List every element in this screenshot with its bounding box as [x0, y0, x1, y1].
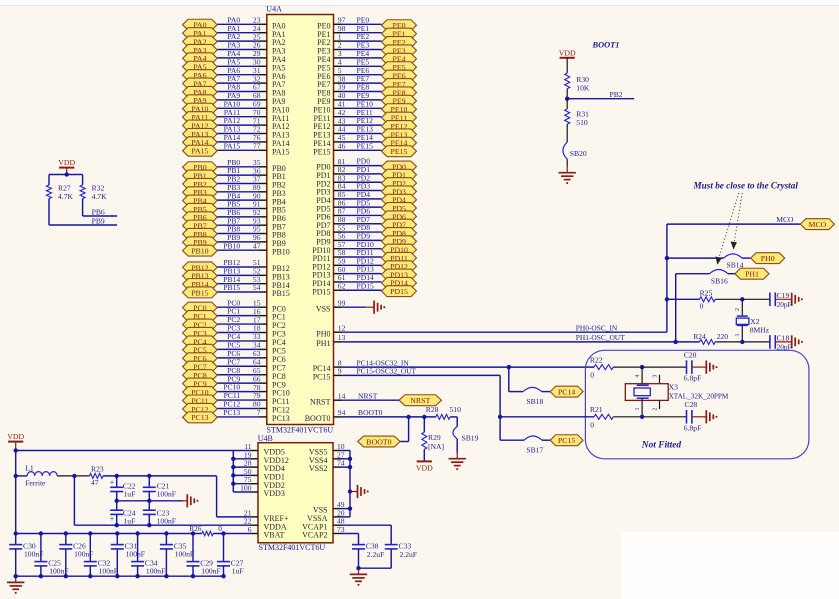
- svg-text:SB18: SB18: [526, 397, 543, 406]
- pin PB9 (96) of U4A with wire and port: [183, 233, 286, 248]
- pin VDDA (22) of U4B: [244, 517, 287, 532]
- capacitor C19 20pF: [770, 291, 792, 309]
- pin PD10 (57) of U4A with wire and port: [312, 240, 416, 255]
- pin PB1 (36) of U4A with wire and port: [183, 166, 286, 181]
- wire VCAP1 to C33: [342, 525, 392, 544]
- junction C27 top: [221, 531, 225, 535]
- pin PE9 (40) of U4A with wire and port: [317, 91, 416, 106]
- pin PB6 (92) of U4A with wire and port: [183, 208, 286, 223]
- svg-text:13: 13: [338, 333, 346, 342]
- svg-text:220: 220: [717, 332, 729, 341]
- svg-text:R22: R22: [590, 355, 603, 364]
- pin PE13 (44) of U4A with wire and port: [313, 125, 416, 140]
- pin NRST (14) of U4A: [310, 391, 399, 406]
- pin PC10 (78) of U4A with wire and port: [183, 383, 290, 398]
- svg-text:PC15: PC15: [313, 373, 331, 382]
- junction C31 bottom: [115, 574, 119, 578]
- pin PB5 (91) of U4A with wire and port: [183, 200, 286, 215]
- svg-text:Ferrite: Ferrite: [25, 478, 46, 487]
- pin PB15 (54) of U4A with wire and port: [183, 283, 290, 298]
- pin PC3 (18) of U4A with wire and port: [183, 324, 286, 339]
- resistor R27 4.7K: [47, 175, 74, 202]
- svg-text:1: 1: [635, 408, 641, 411]
- pin PD2 (83) of U4A with wire and port: [316, 173, 416, 188]
- svg-text:PA15: PA15: [191, 147, 208, 156]
- resistor R31 510: [565, 99, 589, 128]
- svg-text:99: 99: [338, 298, 346, 307]
- junction at X3 pin1: [640, 415, 644, 419]
- wire down to SB17: [500, 417, 524, 440]
- svg-text:VSS: VSS: [316, 304, 331, 313]
- IC U4A STM32F401VCT6U (ports A-E pins): [267, 15, 334, 425]
- wire SB19 to ground: [456, 439, 458, 453]
- pin PC7 (64) of U4A with wire and port: [183, 357, 286, 372]
- pin PB0 (35) of U4A with wire and port: [183, 158, 286, 173]
- svg-text:PB10: PB10: [272, 247, 290, 256]
- svg-text:PE15: PE15: [313, 147, 330, 156]
- svg-text:PB15: PB15: [223, 283, 240, 292]
- svg-text:PC13: PC13: [272, 414, 290, 423]
- svg-text:SB19: SB19: [462, 434, 479, 443]
- pin PB12 (51) of U4A with wire and port: [183, 258, 290, 273]
- junction at X3 pin4: [640, 365, 644, 369]
- svg-text:PH0-OSC_IN: PH0-OSC_IN: [576, 324, 618, 333]
- svg-text:NRST: NRST: [310, 397, 331, 406]
- resistor R21 0: [500, 405, 613, 429]
- junction on BOOT0 net at port branch: [406, 415, 410, 419]
- pin VDD5 (11) of U4B: [233, 442, 285, 457]
- pin PD0 (81) of U4A with wire and port: [316, 157, 416, 172]
- capacitor C25 100nF: [34, 534, 68, 577]
- wire SB14 to PH0 port: [742, 257, 751, 259]
- junction C34 top: [135, 531, 139, 535]
- pin PC5 (34) of U4A with wire and port: [183, 341, 286, 356]
- svg-text:62: 62: [338, 281, 346, 290]
- pin PB13 (52) of U4A with wire and port: [183, 266, 290, 281]
- wire VSSA row: [342, 516, 351, 518]
- junction VDD rail: [231, 457, 235, 461]
- solder bridge SB17: [524, 436, 543, 454]
- junction C26 top: [64, 531, 68, 535]
- svg-text:6: 6: [248, 525, 252, 534]
- junction at SB14 branch: [665, 256, 669, 260]
- wire R28 to SB19: [450, 417, 457, 427]
- svg-text:100nF: 100nF: [146, 566, 165, 575]
- wire to SB14: [667, 257, 724, 259]
- svg-text:2: 2: [735, 308, 741, 311]
- pin PD5 (86) of U4A with wire and port: [316, 198, 416, 213]
- svg-text:Must be close to the Crystal: Must be close to the Crystal: [693, 181, 799, 191]
- junction VDD rail: [231, 473, 235, 477]
- wire down to SB18: [509, 367, 523, 392]
- junction C32 top: [88, 531, 92, 535]
- pin PA8 (67) of U4A with wire and port: [183, 83, 286, 98]
- pin PA10 (69) of U4A with wire and port: [183, 99, 290, 114]
- svg-text:0: 0: [700, 302, 704, 311]
- svg-text:MCO: MCO: [809, 220, 827, 229]
- junction VSS ground tap: [348, 489, 352, 493]
- wire net PC14-OSC32_IN: [342, 366, 594, 368]
- svg-text:2: 2: [652, 408, 658, 411]
- pin PA2 (25) of U4A with wire and port: [183, 32, 286, 47]
- pin PE2 (1) of U4A with wire and port: [317, 32, 416, 47]
- svg-text:PB15: PB15: [191, 288, 208, 297]
- svg-text:10K: 10K: [576, 84, 590, 93]
- junction VDD rail: [231, 482, 235, 486]
- svg-text:C28: C28: [685, 400, 698, 409]
- junction at X2 top: [740, 297, 744, 301]
- svg-text:C20: C20: [684, 350, 697, 359]
- svg-text:PB10: PB10: [191, 247, 208, 256]
- wire net PB9: [49, 199, 117, 225]
- capacitor C24 1uF polarized: [110, 501, 136, 526]
- pin PE12 (43) of U4A with wire and port: [313, 116, 416, 131]
- svg-text:PH0: PH0: [761, 254, 775, 263]
- svg-text:0: 0: [218, 524, 222, 533]
- pin VSS (99) of U4A: [316, 298, 366, 313]
- wire R30 to junction: [566, 89, 568, 99]
- pin PB7 (93) of U4A with wire and port: [183, 216, 286, 231]
- wire PH1 vertical riser to SB16: [675, 274, 677, 342]
- junction C32 bottom: [88, 574, 92, 578]
- svg-text:1uF: 1uF: [232, 566, 244, 575]
- wire SB20 to ground: [566, 159, 568, 166]
- junction PH1 riser: [674, 340, 678, 344]
- pin PC2 (17) of U4A with wire and port: [183, 315, 286, 330]
- pin VSS2 (74) of U4B: [309, 459, 350, 474]
- junction C24 bottom: [115, 523, 119, 527]
- svg-text:100nF: 100nF: [157, 489, 176, 498]
- svg-text:PH1: PH1: [316, 339, 330, 348]
- wire VBAT rail: [16, 533, 250, 535]
- ground at U4B VSS rail: [350, 485, 369, 498]
- svg-text:4.7K: 4.7K: [92, 192, 107, 201]
- pin PH0 (12) of U4A: [316, 323, 345, 338]
- pin PC6 (63) of U4A with wire and port: [183, 349, 286, 364]
- wire analog ground rail: [117, 492, 183, 501]
- svg-text:12: 12: [338, 323, 346, 332]
- pin PC9 (66) of U4A with wire and port: [183, 374, 286, 389]
- svg-text:X3: X3: [669, 382, 678, 391]
- svg-text:4.7K: 4.7K: [58, 192, 73, 201]
- svg-text:PC13: PC13: [223, 408, 240, 417]
- solder bridge SB18: [523, 387, 543, 406]
- svg-text:100nF: 100nF: [99, 566, 118, 575]
- svg-text:+: +: [110, 515, 115, 524]
- crystal X3 XTAL_32K_20PPM: [625, 367, 729, 417]
- junction C21 top: [147, 474, 151, 478]
- svg-text:510: 510: [576, 118, 588, 127]
- resistor R28 510: [426, 405, 461, 419]
- junction C31 top: [115, 531, 119, 535]
- pin PA5 (30) of U4A with wire and port: [183, 57, 286, 72]
- svg-text:PE15: PE15: [357, 141, 374, 150]
- pin PA15 (77) of U4A with wire and port: [183, 141, 290, 156]
- ground at C20: [692, 361, 717, 374]
- wire R22 to C20: [613, 366, 686, 368]
- wire VSS row: [342, 508, 351, 510]
- pin PE15 (46) of U4A with wire and port: [313, 141, 416, 156]
- svg-text:PC15-OSC32_OUT: PC15-OSC32_OUT: [357, 367, 417, 376]
- pin PA4 (29) of U4A with wire and port: [183, 49, 286, 64]
- annotation arrow to SB16: [716, 193, 739, 265]
- pin PA12 (71) of U4A with wire and port: [183, 116, 290, 131]
- pin PC12 (80) of U4A with wire and port: [183, 400, 290, 415]
- junction C25 top: [39, 531, 43, 535]
- resistor R29 [NA]: [422, 417, 444, 451]
- pin VREF+ (21) of U4B: [244, 508, 289, 523]
- ground at VSS pin 99: [366, 301, 385, 314]
- junction C27 bottom: [221, 574, 225, 578]
- svg-text:BOOT1: BOOT1: [592, 40, 620, 49]
- wire net PH1-OSC_OUT: [342, 341, 676, 343]
- junction on PC15 net at R21 row: [498, 415, 502, 419]
- wire SB18 to PC14 port: [542, 391, 551, 393]
- port PH0: [751, 253, 785, 264]
- svg-text:SB16: SB16: [711, 276, 728, 285]
- ground at C19: [775, 293, 803, 306]
- junction VSS row: [348, 506, 352, 510]
- pin PE8 (39) of U4A with wire and port: [317, 83, 416, 98]
- junction VCAP ground: [356, 566, 360, 570]
- pin VDD3 (100) of U4B: [233, 484, 285, 499]
- pin PE7 (38) of U4A with wire and port: [317, 74, 416, 89]
- wire VCAP2 to C38: [342, 534, 359, 545]
- resistor R26 0: [189, 524, 222, 536]
- pin PE10 (41) of U4A with wire and port: [313, 99, 416, 114]
- pin PD6 (87) of U4A with wire and port: [316, 207, 416, 222]
- svg-text:74: 74: [337, 459, 345, 468]
- junction at R29 top: [422, 415, 426, 419]
- wire VREF+ net: [103, 476, 250, 517]
- svg-text:R28: R28: [426, 405, 439, 414]
- wire BOOT0 port link: [400, 441, 408, 443]
- pin PE5 (4) of U4A with wire and port: [317, 57, 416, 72]
- pin PA1 (24) of U4A with wire and port: [183, 24, 286, 39]
- ground at C28: [692, 410, 717, 423]
- wire VDDA net: [74, 476, 250, 525]
- capacitor C20 6.8pF: [684, 350, 702, 382]
- svg-text:R24: R24: [693, 332, 706, 341]
- svg-text:NRST: NRST: [410, 396, 430, 405]
- svg-text:4: 4: [635, 375, 641, 378]
- svg-text:BOOT0: BOOT0: [358, 408, 383, 417]
- pin PA13 (72) of U4A with wire and port: [183, 125, 290, 140]
- svg-text:2.2uF: 2.2uF: [367, 550, 385, 559]
- svg-text:0: 0: [590, 371, 594, 380]
- svg-text:100nF: 100nF: [126, 549, 145, 558]
- svg-text:L1: L1: [25, 464, 34, 473]
- pin VSSA (20) of U4B: [307, 508, 345, 523]
- pin PB3 (89) of U4A with wire and port: [183, 183, 286, 198]
- svg-text:+: +: [110, 478, 115, 487]
- wire SB16 to PH1 port: [728, 273, 735, 275]
- port MCO: [800, 219, 834, 230]
- wire VSS vertical rail: [349, 451, 351, 517]
- capacitor C26 100nF: [59, 534, 93, 577]
- wire R29 to VDD: [423, 449, 425, 461]
- wire to BOOT0 port: [408, 417, 410, 442]
- ground under SB19: [456, 453, 458, 459]
- svg-text:SB20: SB20: [570, 149, 587, 158]
- capacitor C29 100nF: [187, 534, 221, 577]
- capacitor C27 1uF: [217, 534, 244, 577]
- pin PC4 (33) of U4A with wire and port: [183, 332, 286, 347]
- svg-text:Not Fitted: Not Fitted: [641, 441, 682, 451]
- pin PB8 (95) of U4A with wire and port: [183, 225, 286, 240]
- pin PD9 (56) of U4A with wire and port: [316, 231, 416, 246]
- svg-text:VDD: VDD: [7, 432, 24, 441]
- junction C30 top: [14, 531, 18, 535]
- pin VSS5 (10) of U4B: [309, 442, 350, 457]
- svg-text:100nF: 100nF: [49, 566, 68, 575]
- pin VSS4 (27) of U4B: [309, 450, 350, 465]
- wire SB17 to PC15 port: [542, 439, 550, 441]
- port BOOT0: [358, 436, 401, 447]
- svg-text:PH1-OSC_OUT: PH1-OSC_OUT: [576, 333, 625, 342]
- pin PD12 (59) of U4A with wire and port: [312, 256, 416, 271]
- pin PH1 (13) of U4A: [316, 333, 345, 348]
- svg-text:R31: R31: [576, 110, 589, 119]
- pin PE0 (97) of U4A with wire and port: [317, 15, 416, 30]
- svg-text:PB10: PB10: [223, 241, 240, 250]
- svg-text:100nF: 100nF: [201, 566, 220, 575]
- crystal X2 8MHz: [736, 299, 769, 342]
- pin PB2 (37) of U4A with wire and port: [183, 175, 286, 190]
- svg-text:NRST: NRST: [358, 391, 378, 400]
- junction VSS4: [348, 457, 352, 461]
- svg-text:VBAT: VBAT: [264, 531, 285, 540]
- svg-text:R25: R25: [700, 289, 713, 298]
- svg-text:PB6: PB6: [92, 207, 105, 216]
- junction VDD entry: [14, 448, 18, 452]
- svg-text:[NA]: [NA]: [428, 442, 444, 451]
- wire R31 to SB20: [566, 124, 568, 142]
- pin PC8 (65) of U4A with wire and port: [183, 366, 286, 381]
- svg-text:BOOT0: BOOT0: [366, 437, 391, 446]
- svg-text:PD15: PD15: [312, 287, 330, 296]
- junction node PB2: [565, 97, 569, 101]
- port NRST: [399, 395, 442, 406]
- svg-text:PH1: PH1: [745, 270, 759, 279]
- pin VDD2 (75) of U4B: [233, 475, 285, 490]
- solder bridge SB20: [563, 142, 587, 159]
- svg-text:PD15: PD15: [357, 281, 375, 290]
- wire net PC15-OSC32_OUT: [342, 375, 500, 416]
- pin PD4 (85) of U4A with wire and port: [316, 190, 416, 205]
- svg-text:8MHz: 8MHz: [750, 326, 770, 335]
- junction C22 top: [115, 474, 119, 478]
- svg-text:BOOT0: BOOT0: [305, 414, 331, 423]
- junction C34 bottom: [135, 574, 139, 578]
- wire bottom ground rail: [16, 575, 224, 577]
- pin PD11 (58) of U4A with wire and port: [313, 248, 417, 263]
- junction C29 top: [191, 531, 195, 535]
- svg-text:6.8pF: 6.8pF: [684, 374, 702, 383]
- pin VBAT (6) of U4B: [248, 525, 285, 540]
- pin PA3 (26) of U4A with wire and port: [183, 41, 286, 56]
- pin VSS (49) of U4B: [313, 500, 345, 515]
- capacitor C30 100nF: [9, 534, 43, 577]
- junction ground rail C22: [115, 499, 119, 503]
- junction VDDA branch: [72, 474, 76, 478]
- wire R25 to C19: [715, 298, 770, 300]
- resistor R22 0: [590, 355, 613, 379]
- wire net PB2: [567, 98, 634, 100]
- wire R21 to C28: [613, 416, 686, 418]
- inductor L1 Ferrite: [16, 464, 58, 488]
- svg-text:47: 47: [91, 478, 99, 487]
- svg-text:20pF: 20pF: [777, 300, 792, 309]
- capacitor C21 100nF: [143, 476, 176, 499]
- wire to SB16: [676, 273, 710, 275]
- pin PE11 (42) of U4A with wire and port: [313, 108, 416, 123]
- junction on PC14-OSC32_IN net: [507, 365, 511, 369]
- capacitor C34 100nF: [131, 534, 165, 577]
- capacitor C23 100nF: [143, 501, 176, 526]
- junction C35 bottom: [164, 574, 168, 578]
- svg-text:PA15: PA15: [272, 147, 290, 156]
- port PH1: [735, 268, 769, 279]
- wire VDD vertical: [15, 451, 17, 534]
- ground at bottom rail: [15, 576, 17, 582]
- svg-text:C19: C19: [777, 291, 790, 300]
- junction VSS2: [348, 465, 352, 469]
- svg-text:1uF: 1uF: [124, 516, 136, 525]
- resistor R23 47: [90, 464, 104, 486]
- svg-text:C33: C33: [399, 541, 412, 550]
- junction at VDD pull-up rail: [65, 172, 69, 176]
- svg-text:VSS2: VSS2: [309, 464, 328, 473]
- resistor R30 10K: [565, 73, 590, 93]
- pin BOOT0 (94) of U4A: [305, 408, 436, 423]
- ground of BOOT1 divider: [566, 167, 568, 173]
- svg-text:VDD: VDD: [559, 48, 576, 57]
- svg-text:2.2uF: 2.2uF: [400, 550, 418, 559]
- svg-text:1uF: 1uF: [124, 489, 136, 498]
- svg-text:STM32F401VCT6U: STM32F401VCT6U: [259, 543, 326, 552]
- svg-text:U4A: U4A: [266, 5, 282, 14]
- svg-text:6.8pF: 6.8pF: [684, 423, 702, 432]
- pin VCAP2 (73) of U4B: [302, 525, 345, 540]
- svg-text:3: 3: [652, 375, 658, 378]
- pin PC11 (79) of U4A with wire and port: [183, 391, 290, 406]
- junction at R25 branch: [665, 297, 669, 301]
- svg-text:PH0: PH0: [316, 329, 330, 338]
- pin PE14 (45) of U4A with wire and port: [313, 133, 416, 148]
- power symbol VDD main: [7, 432, 24, 450]
- pin PC13 (7) of U4A with wire and port: [183, 408, 290, 423]
- svg-text:PB15: PB15: [272, 289, 290, 298]
- pin PA7 (32) of U4A with wire and port: [183, 74, 286, 89]
- svg-text:C38: C38: [366, 541, 379, 550]
- svg-text:VDD3: VDD3: [264, 489, 285, 498]
- pin PB10 (47) of U4A with wire and port: [183, 241, 290, 256]
- svg-text:14: 14: [338, 391, 346, 400]
- svg-text:PA15: PA15: [224, 141, 241, 150]
- port PC14: [550, 386, 583, 397]
- pin VDD1 (50) of U4B: [233, 467, 285, 482]
- wire R24 to C18: [715, 341, 770, 343]
- IC U4B STM32F401VCT6U (power pins): [258, 443, 333, 543]
- svg-text:PC15: PC15: [558, 436, 575, 445]
- svg-text:9: 9: [338, 367, 342, 376]
- pin PE6 (5) of U4A with wire and port: [317, 66, 416, 81]
- pin PE1 (98) of U4A with wire and port: [317, 24, 416, 39]
- svg-text:PC14: PC14: [558, 388, 575, 397]
- junction C29 bottom: [191, 574, 195, 578]
- solder bridge SB14: [724, 254, 744, 270]
